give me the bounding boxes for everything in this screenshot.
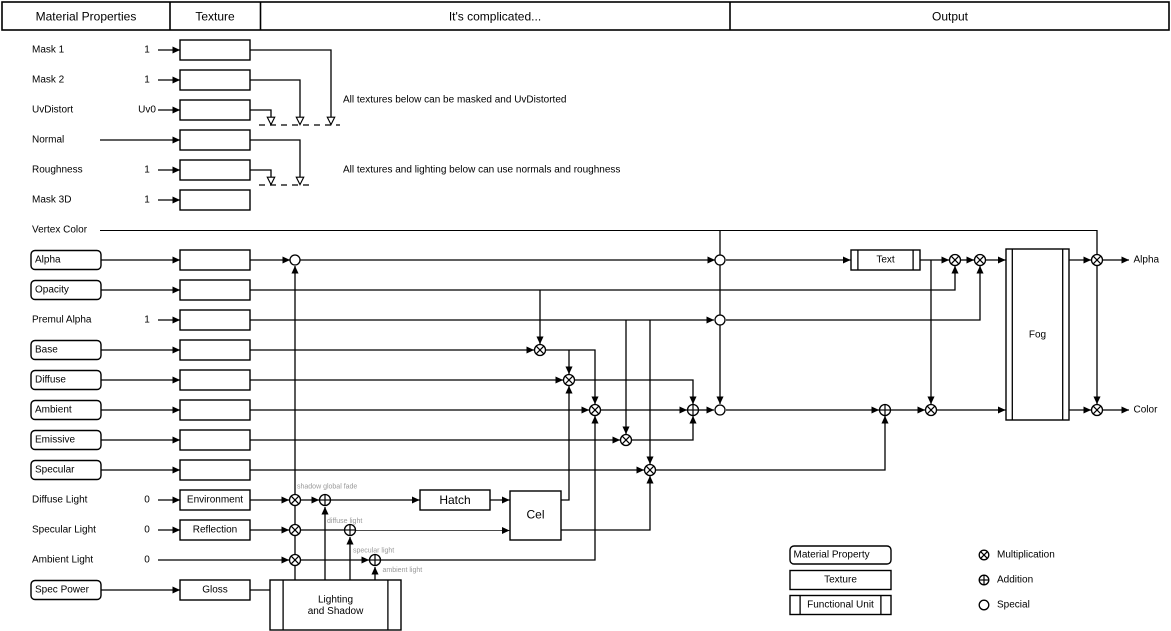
svg-text:Reflection: Reflection — [193, 525, 237, 536]
svg-text:Material Properties: Material Properties — [36, 10, 137, 24]
svg-text:Multiplication: Multiplication — [997, 550, 1055, 561]
svg-text:Texture: Texture — [195, 10, 235, 24]
svg-text:Emissive: Emissive — [35, 435, 75, 446]
svg-text:0: 0 — [144, 555, 150, 566]
svg-text:Gloss: Gloss — [202, 585, 228, 596]
svg-text:Mask 3D: Mask 3D — [32, 195, 71, 206]
svg-text:Cel: Cel — [526, 508, 544, 522]
svg-text:Premul Alpha: Premul Alpha — [32, 315, 92, 326]
svg-text:UvDistort: UvDistort — [32, 105, 73, 116]
svg-text:1: 1 — [144, 195, 150, 206]
svg-text:specular light: specular light — [353, 548, 394, 555]
svg-text:Base: Base — [35, 345, 58, 356]
svg-text:Specular Light: Specular Light — [32, 525, 96, 536]
svg-text:shadow global fade: shadow global fade — [297, 484, 357, 491]
svg-text:Diffuse Light: Diffuse Light — [32, 495, 88, 506]
svg-text:Output: Output — [932, 10, 969, 24]
svg-text:Environment: Environment — [187, 495, 243, 506]
svg-text:Special: Special — [997, 600, 1030, 611]
svg-text:Addition: Addition — [997, 575, 1033, 586]
svg-text:diffuse light: diffuse light — [327, 518, 362, 525]
svg-text:Alpha: Alpha — [35, 255, 61, 266]
svg-text:Specular: Specular — [35, 465, 75, 476]
svg-text:Opacity: Opacity — [35, 285, 69, 296]
svg-text:0: 0 — [144, 525, 150, 536]
svg-text:1: 1 — [144, 315, 150, 326]
svg-text:Color: Color — [1134, 405, 1159, 416]
svg-text:1: 1 — [144, 165, 150, 176]
svg-text:Vertex Color: Vertex Color — [32, 225, 88, 236]
svg-text:Ambient: Ambient — [35, 405, 72, 416]
svg-text:Alpha: Alpha — [1134, 255, 1160, 266]
svg-text:Uv0: Uv0 — [138, 105, 156, 116]
svg-text:Mask 2: Mask 2 — [32, 75, 65, 86]
svg-text:Spec Power: Spec Power — [35, 585, 90, 596]
svg-text:Text: Text — [876, 255, 895, 266]
svg-text:Material Property: Material Property — [794, 550, 870, 561]
svg-text:1: 1 — [144, 45, 150, 56]
svg-text:and Shadow: and Shadow — [308, 606, 364, 617]
svg-text:Fog: Fog — [1029, 330, 1046, 341]
svg-text:0: 0 — [144, 495, 150, 506]
svg-text:Ambient Light: Ambient Light — [32, 555, 93, 566]
svg-text:Mask 1: Mask 1 — [32, 45, 65, 56]
svg-text:ambient light: ambient light — [383, 567, 423, 574]
svg-text:All textures below can be mask: All textures below can be masked and UvD… — [343, 95, 566, 106]
svg-text:Diffuse: Diffuse — [35, 375, 66, 386]
svg-text:All textures and lighting belo: All textures and lighting below can use … — [343, 165, 620, 176]
svg-text:1: 1 — [144, 75, 150, 86]
svg-text:Roughness: Roughness — [32, 165, 83, 176]
svg-text:Normal: Normal — [32, 135, 64, 146]
svg-text:It's complicated...: It's complicated... — [449, 10, 541, 24]
svg-text:Functional Unit: Functional Unit — [807, 600, 874, 611]
svg-text:Hatch: Hatch — [439, 493, 470, 507]
svg-text:Texture: Texture — [824, 575, 857, 586]
svg-text:Lighting: Lighting — [318, 595, 353, 606]
